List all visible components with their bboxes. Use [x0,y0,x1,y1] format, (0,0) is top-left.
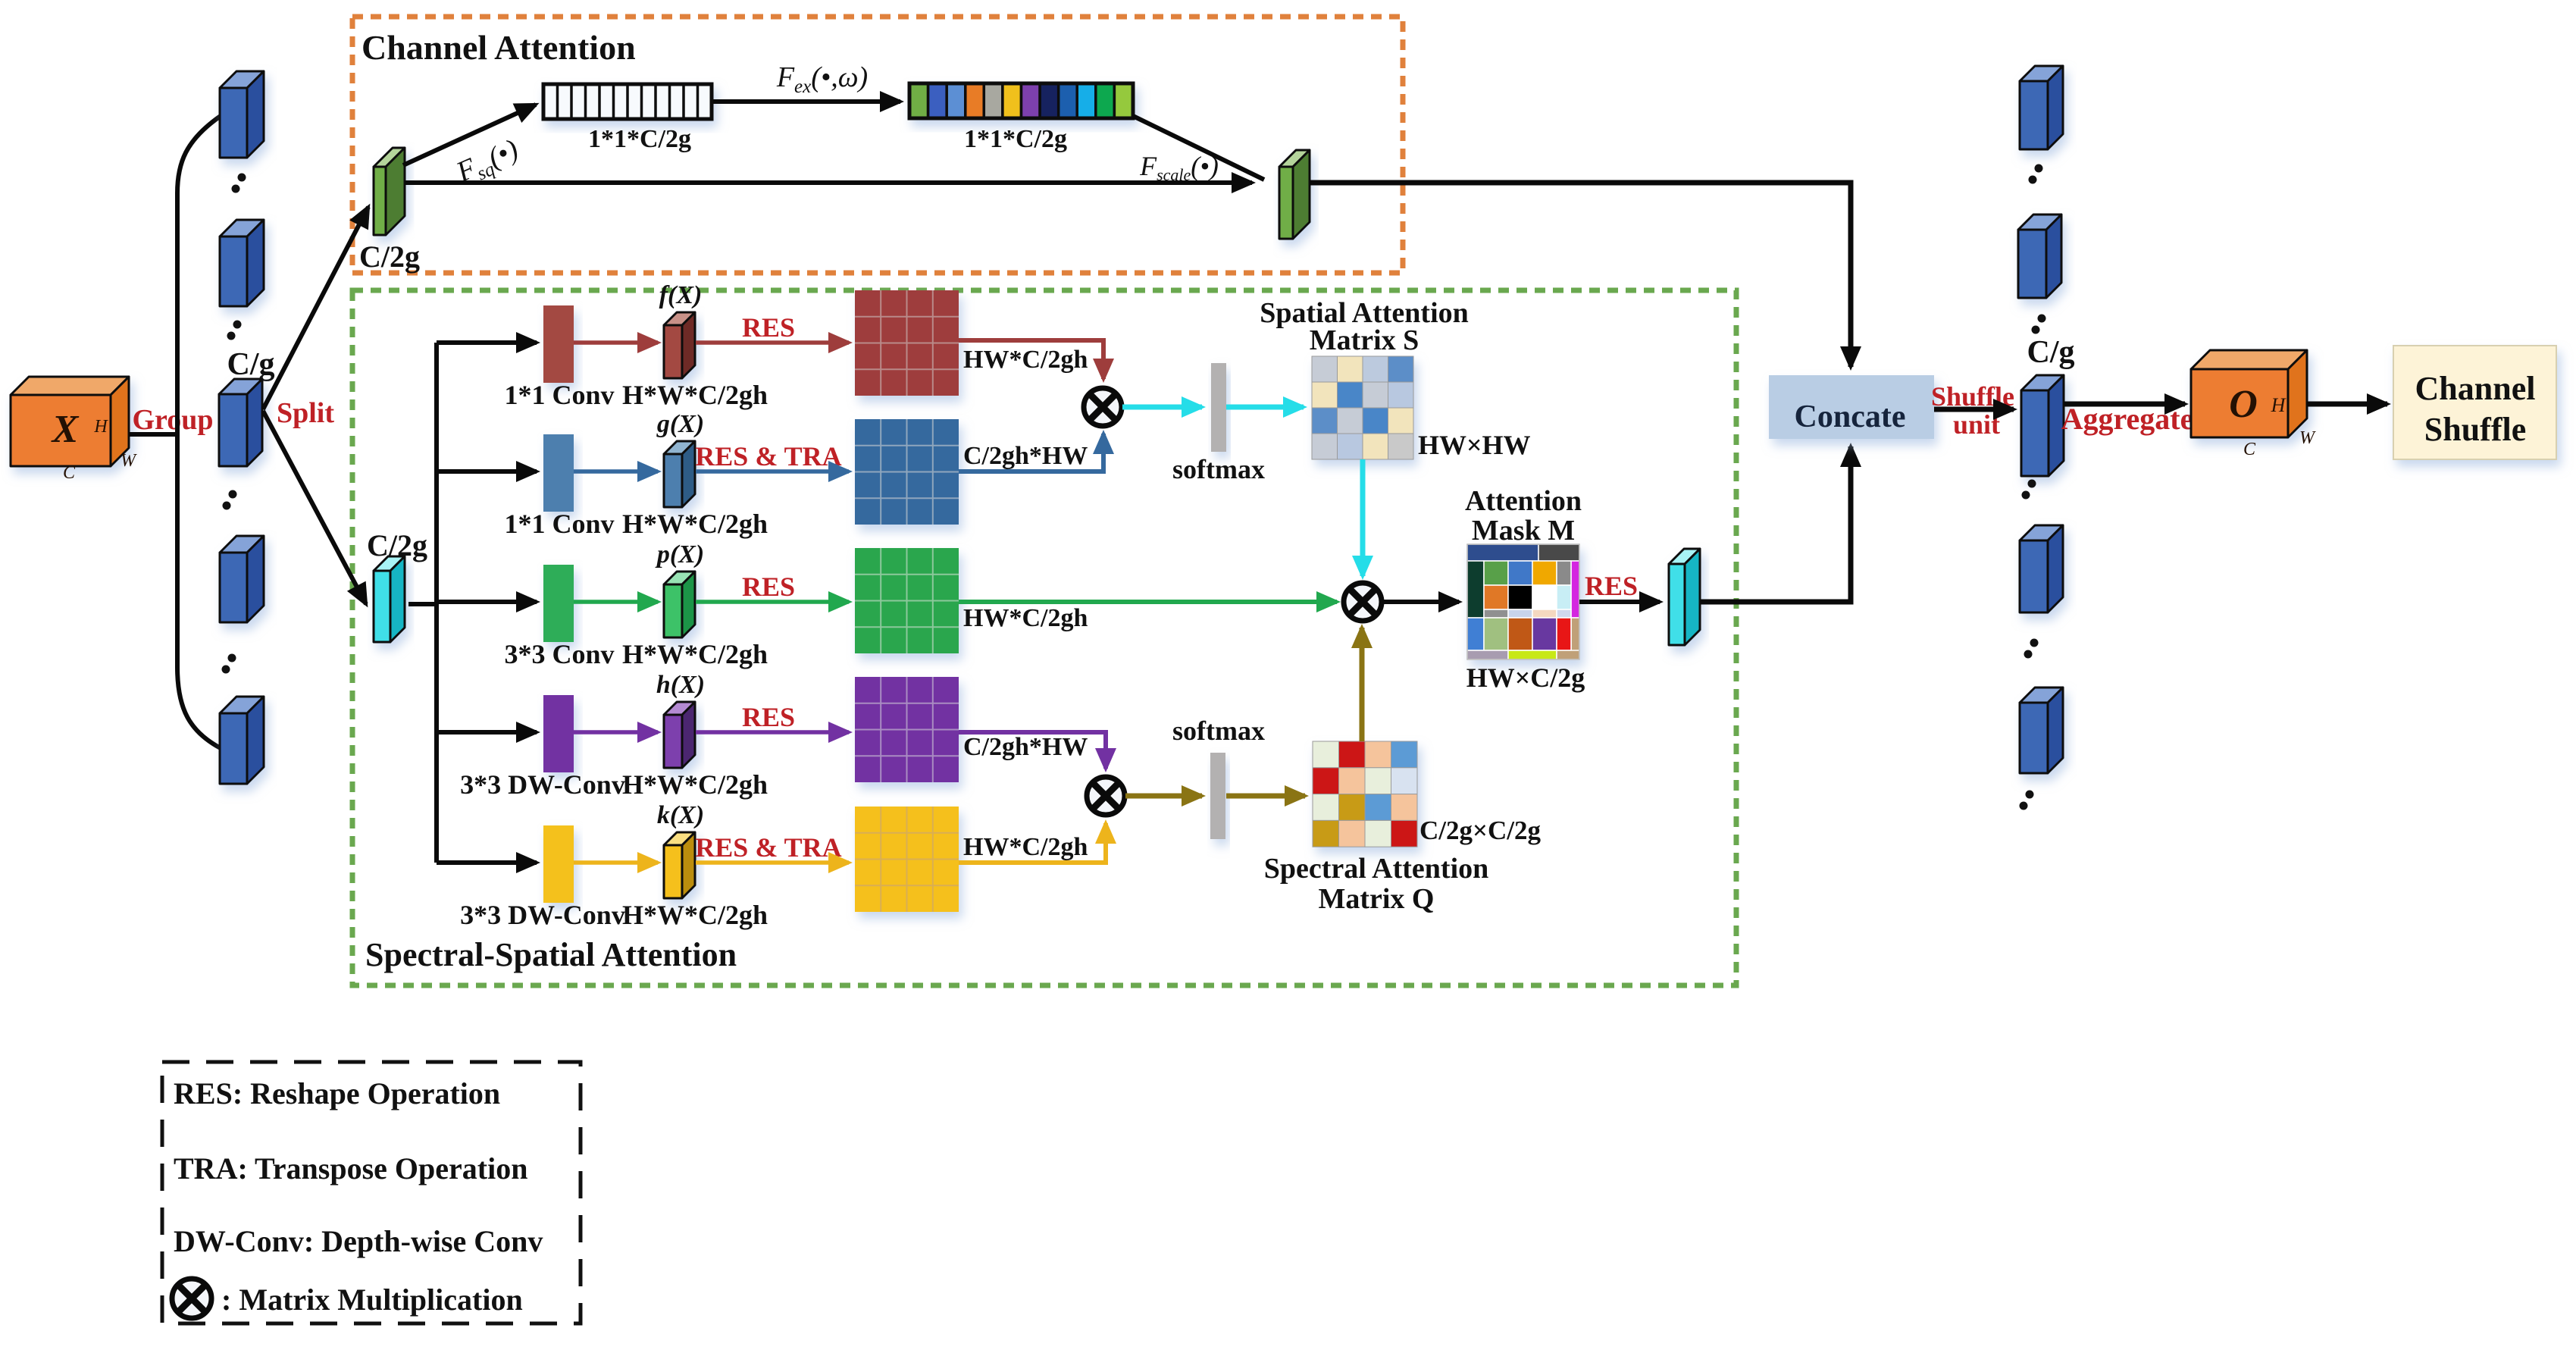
svg-text:H*W*C/2gh: H*W*C/2gh [622,509,768,539]
svg-text:H: H [2271,394,2286,416]
matrix grid branch 4 [855,677,959,782]
svg-text:C: C [2243,440,2256,459]
wire Fscale diagonal [1133,116,1264,180]
matrix multiply mask [1344,583,1382,621]
svg-text:softmax: softmax [1172,716,1265,746]
wire grid4 to otimes2 top [959,732,1106,769]
Spatial Attention Matrix S [1312,356,1413,459]
svg-text:Channel Attention: Channel Attention [362,28,636,67]
Spectral Attention Matrix Q [1313,741,1417,847]
svg-text:RES: RES [742,702,795,732]
wire otimes center to mask M [1382,600,1459,604]
wire channel attention bypass [405,180,1252,185]
feature box f(X) branch 1 [664,312,695,378]
wire cube O to channel shuffle [2306,402,2387,407]
wire split to spectral attention [263,411,366,604]
legend otimes symbol [172,1279,211,1318]
conv layer slab branch 3 [543,565,574,642]
wire spectral output to concate [1701,446,1851,602]
svg-text:TRA: Transpose Operation: TRA: Transpose Operation [174,1151,527,1186]
svg-text:HW*C/2gh: HW*C/2gh [963,346,1088,374]
svg-text:3*3 DW-Conv: 3*3 DW-Conv [460,769,625,800]
svg-text:RES: RES [1585,571,1638,601]
svg-text:3*3 DW-Conv: 3*3 DW-Conv [460,900,625,930]
conv layer slab branch 5 [543,825,574,903]
svg-text:H*W*C/2gh: H*W*C/2gh [622,900,768,930]
svg-text:H*W*C/2gh: H*W*C/2gh [622,639,768,669]
dots right 4 [2024,639,2039,659]
white vector 1*1*C/2g [543,84,712,119]
svg-text:C: C [63,463,76,483]
svg-text:HW*C/2gh: HW*C/2gh [963,833,1088,861]
cyan bar output [1669,549,1700,645]
svg-text:C/2g: C/2g [359,240,420,274]
svg-text:RES & TRA: RES & TRA [695,441,841,471]
wire branch 5 box to grid [696,860,849,865]
matrix grid branch 1 [855,290,959,396]
Concate box [1769,375,1934,439]
svg-text:unit: unit [1953,409,2000,440]
dots right 1 [2029,164,2043,184]
wire branch 1 slab to box [574,340,658,345]
svg-text:W: W [121,451,137,471]
wire branch 2 box to grid [696,469,849,474]
svg-text:HW×C/2g: HW×C/2g [1466,662,1585,693]
dots right 3 [2022,480,2036,500]
wire grid3 to otimes center [959,600,1337,604]
svg-text:Matrix Q: Matrix Q [1318,883,1434,915]
svg-text:Shuffle: Shuffle [2424,411,2526,448]
output bar 4 (right column) [2020,525,2063,612]
svg-text:1*1 Conv: 1*1 Conv [504,380,614,410]
output bar 2 (right column) [2018,215,2061,298]
feature box p(X) branch 3 [664,572,695,637]
wire branch 1 box to grid [696,340,849,345]
dots left 4 [222,654,236,674]
svg-text:Fex(•,ω): Fex(•,ω) [776,61,868,97]
cyan bar C/2g input [374,556,405,642]
output bar 5 (right column) [2020,688,2063,773]
dots left 1 [232,174,246,193]
feature box k(X) branch 5 [664,832,695,898]
svg-text:1*1 Conv: 1*1 Conv [504,509,614,539]
feature bar 5 (left column) [220,697,264,784]
svg-text:H*W*C/2gh: H*W*C/2gh [622,380,768,410]
svg-text:p(X): p(X) [655,540,704,569]
svg-text:RES: Reshape Operation: RES: Reshape Operation [174,1076,500,1110]
svg-text:C/2g×C/2g: C/2g×C/2g [1419,816,1541,845]
svg-text:g(X): g(X) [656,410,704,438]
matrix multiply spectral [1087,777,1125,815]
svg-text:HW×HW: HW×HW [1418,430,1531,460]
dots left 2 [227,321,242,340]
svg-text:k(X): k(X) [657,801,704,829]
wire branch 3 from bus [437,600,537,604]
svg-text:HW*C/2gh: HW*C/2gh [963,604,1088,632]
wire otimes2 to softmax bottom [1125,794,1202,799]
svg-text:3*3 Conv: 3*3 Conv [504,639,614,669]
output cube O [2191,350,2307,437]
svg-text:1*1*C/2g: 1*1*C/2g [964,125,1067,153]
wire branch 1 from bus [437,340,537,345]
group bracket curve [177,116,221,748]
svg-text:C/2gh*HW: C/2gh*HW [963,442,1088,470]
svg-text:H*W*C/2gh: H*W*C/2gh [622,769,768,800]
matrix grid branch 3 [855,548,959,653]
dots left 3 [223,490,237,510]
conv layer slab branch 2 [543,434,574,512]
wire channel attention to concate [1310,183,1851,367]
svg-text:h(X): h(X) [656,671,705,699]
matrix grid branch 5 [855,807,959,912]
wire branch 2 from bus [437,469,537,474]
svg-text:C/2gh*HW: C/2gh*HW [963,733,1088,761]
wire otimes to softmax top [1122,405,1202,410]
svg-text:C/g: C/g [2027,335,2075,370]
matrix grid branch 2 [855,419,959,525]
wire grid2 to otimes bottom [959,434,1103,471]
svg-text:O: O [2229,383,2258,426]
svg-text:C/g: C/g [227,347,275,382]
wire split to channel attention [263,207,368,409]
feature bar 2 (left column) [220,220,264,306]
wire Fsq diagonal to vector [403,105,536,165]
svg-text:Mask M: Mask M [1472,515,1575,547]
wire X to group bracket [129,432,177,437]
colored vector 1*1*C/2g [909,83,1133,118]
output bar 1 (right column) [2020,66,2063,149]
wire matrix S down to otimes center [1360,459,1366,576]
wire softmax to matrix Q [1226,794,1305,799]
input cube X [11,377,129,466]
softmax bar bottom [1210,753,1225,839]
wire branch 2 slab to box [574,469,658,474]
svg-text:Attention: Attention [1465,485,1582,517]
Channel Attention dashed box [352,17,1403,273]
svg-text:RES: RES [742,312,795,343]
wire branch 3 slab to box [574,600,658,604]
green bar C/2g input [374,148,405,235]
svg-text:: Matrix Multiplication: : Matrix Multiplication [221,1283,523,1317]
svg-text:Channel: Channel [2415,370,2536,407]
svg-text:X: X [51,408,80,451]
svg-text:Matrix S: Matrix S [1310,324,1419,356]
wire branch 5 from bus [437,860,537,865]
wire shuffle bar to cube O [2064,402,2185,407]
conv layer slab branch 4 [543,695,574,772]
wire grid5 to otimes2 bottom [959,823,1106,863]
svg-text:Spectral Attention: Spectral Attention [1264,853,1489,885]
wire branch 3 box to grid [696,600,849,604]
svg-text:RES & TRA: RES & TRA [695,832,841,863]
wire branch 4 from bus [437,730,537,735]
legend dashed box [162,1062,581,1323]
svg-text:Group: Group [132,404,213,436]
feature bar 4 (left column) [220,536,264,622]
wire concate to shuffle bar [1934,407,2014,412]
svg-text:Split: Split [277,397,334,429]
feature bar 3 C/g (left column) [219,379,262,466]
feature box g(X) branch 2 [664,441,695,507]
wire mask M to cyan output bar [1579,600,1660,604]
wire branch 4 slab to box [574,730,658,735]
svg-text:H: H [93,417,108,437]
Channel Shuffle box [2393,346,2556,459]
dots right 2 [2032,315,2046,334]
svg-text:Spectral-Spatial Attention: Spectral-Spatial Attention [365,936,737,973]
wire cyan bar to branch bus [408,602,437,606]
svg-text:W: W [2299,428,2316,448]
wire softmax to matrix S [1226,405,1304,410]
green bar C/2g output [1279,150,1310,239]
wire branch 5 slab to box [574,860,658,865]
softmax bar top [1211,363,1226,452]
svg-text:C/2g: C/2g [367,528,427,562]
svg-text:DW-Conv: Depth-wise Conv: DW-Conv: Depth-wise Conv [174,1224,543,1258]
feature box h(X) branch 4 [664,702,695,768]
dots right 5 [2020,791,2034,810]
matrix multiply spatial [1084,388,1122,426]
wire matrix Q up to otimes center [1360,628,1365,741]
svg-text:Concate: Concate [1795,399,1906,434]
branch bus vertical wire [434,343,439,863]
wire branch 4 box to grid [696,730,849,735]
Attention Mask M [1467,544,1579,659]
output bar C/g shuffle unit [2021,375,2064,476]
Spectral-Spatial Attention dashed box [352,290,1736,985]
wire Fex to colored vector [713,99,900,104]
svg-text:Aggregate: Aggregate [2061,402,2194,436]
conv layer slab branch 1 [543,305,574,383]
svg-text:RES: RES [742,572,795,602]
feature bar 1 (left column) [220,71,264,158]
svg-text:softmax: softmax [1172,454,1265,484]
svg-text:1*1*C/2g: 1*1*C/2g [588,125,691,153]
wire grid1 to otimes top [959,340,1103,379]
svg-text:f(X): f(X) [659,281,703,309]
